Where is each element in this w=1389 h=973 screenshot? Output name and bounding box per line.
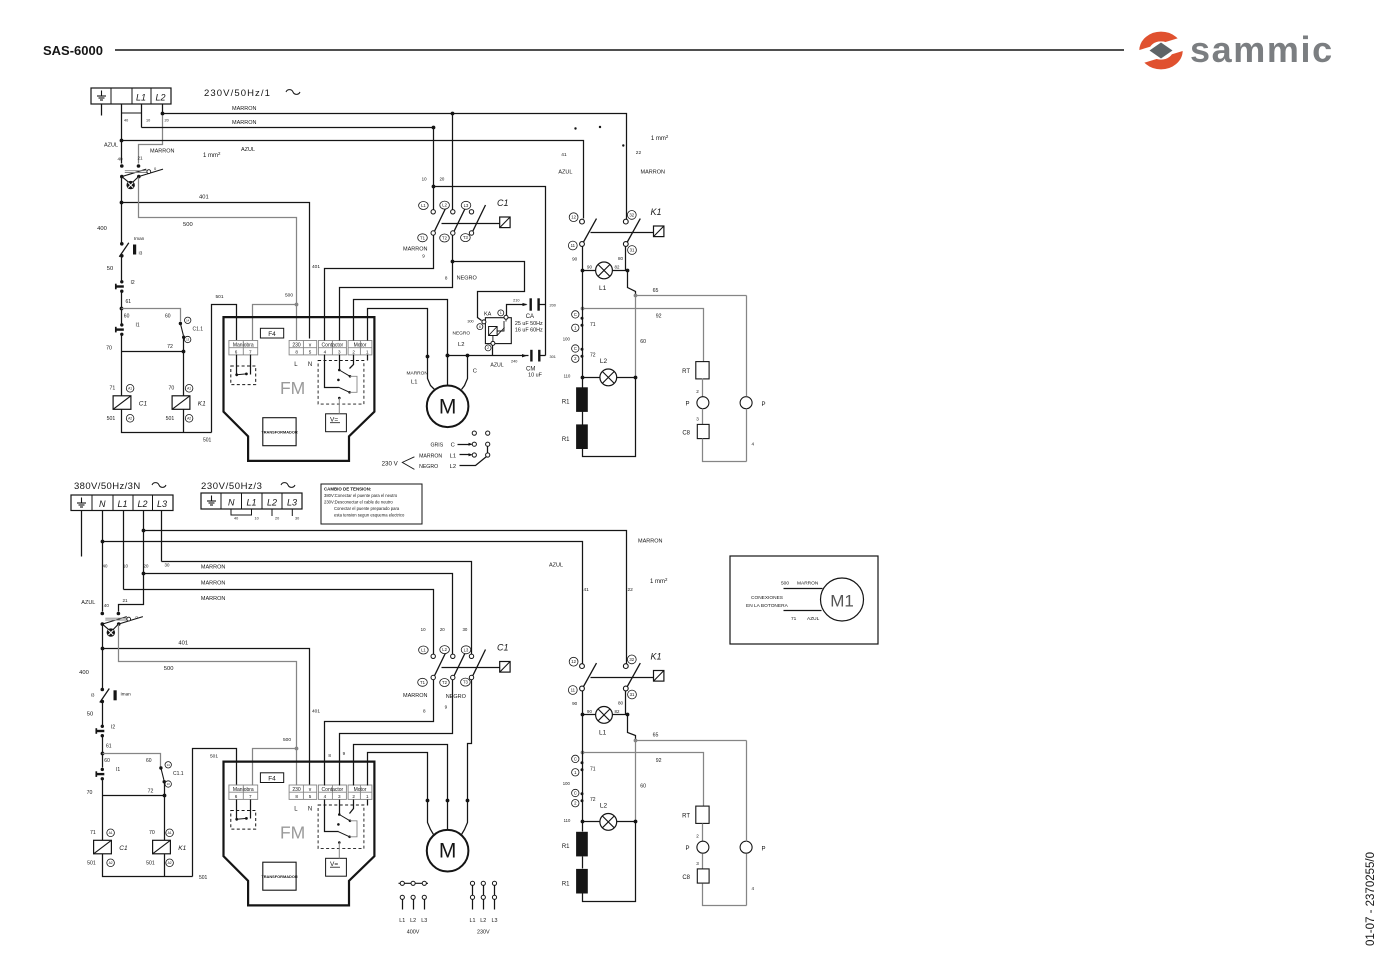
wire to lamp L2 left top	[583, 377, 600, 379]
internal contact a top	[338, 369, 351, 378]
svg-text:K1: K1	[198, 401, 206, 408]
wire maniobra 6 internal bottom	[236, 800, 238, 820]
svg-text:L3: L3	[157, 499, 167, 509]
svg-text:C8: C8	[682, 875, 690, 881]
pushbutton I2 bottom	[96, 725, 104, 738]
wire 20 marron top feeder	[163, 114, 627, 220]
svg-text:100: 100	[563, 336, 571, 341]
wire 8 T2 to FM contactor 3	[340, 236, 453, 341]
probe P left circle top	[697, 397, 709, 409]
wire 400 main down	[121, 177, 123, 244]
wire to lamp L2 left bottom	[583, 821, 600, 823]
svg-text:Motor: Motor	[354, 342, 367, 348]
wire L3 drop bottom	[161, 511, 163, 562]
svg-text:MARRON: MARRON	[403, 247, 427, 253]
svg-text:500: 500	[164, 666, 174, 672]
svg-text:92: 92	[656, 758, 662, 764]
svg-text:L2: L2	[480, 918, 486, 924]
internal contact a bottom	[338, 813, 351, 822]
internal contact b top	[337, 379, 351, 394]
K1 actuator bar top	[591, 232, 654, 234]
wire 200 to 301 vertical	[545, 305, 547, 356]
svg-text:501: 501	[203, 438, 212, 444]
svg-text:401: 401	[312, 709, 320, 715]
svg-text:400V: 400V	[407, 930, 420, 936]
circled C upper bottom	[572, 755, 579, 762]
svg-text:Maniobra: Maniobra	[233, 342, 254, 348]
svg-text:AZUL: AZUL	[81, 600, 95, 606]
wire 501 riser to maniobra 6 bottom	[193, 749, 237, 877]
legend circle row 1	[472, 431, 476, 435]
wire 22 feeder to K1-32 bottom	[144, 531, 627, 664]
circled 2 bottom	[572, 800, 579, 807]
svg-text:230: 230	[292, 787, 301, 793]
terminal strip Maniobra 6 7 bottom	[229, 785, 258, 799]
contactor dashed box bottom	[318, 805, 364, 849]
svg-text:L1: L1	[247, 498, 257, 508]
circled 2 top	[572, 355, 579, 362]
terminal legend 400V	[399, 882, 429, 884]
relay coil symbol K1 bottom	[654, 671, 664, 682]
svg-text:50: 50	[107, 266, 113, 272]
svg-text:M: M	[439, 840, 457, 863]
wire KA 2 to azul	[492, 346, 494, 356]
svg-text:8: 8	[445, 276, 448, 281]
internal right link bottom	[350, 821, 357, 837]
svg-text:A2: A2	[168, 861, 172, 865]
wire thermal contact chain bottom	[582, 715, 584, 822]
cambio de tension box	[321, 484, 422, 524]
wire 4 top	[746, 409, 748, 462]
wire motor-1 bottom	[368, 753, 434, 835]
wire 10 feeder bottom	[124, 590, 434, 655]
svg-text:L2: L2	[442, 203, 447, 208]
wire 500 branch to maniobra 7	[253, 305, 297, 341]
svg-text:L1: L1	[421, 203, 426, 208]
svg-text:L1: L1	[118, 499, 128, 509]
svg-text:3: 3	[338, 794, 341, 799]
svg-text:20: 20	[144, 564, 149, 569]
resistor R1 lower bottom	[576, 869, 588, 894]
svg-text:60: 60	[640, 784, 646, 790]
contactor pole L3-T3 bottom	[469, 650, 485, 680]
arrow marron	[460, 454, 470, 456]
svg-text:MARRON: MARRON	[201, 565, 225, 571]
svg-text:10: 10	[123, 564, 128, 569]
terminal strip 230v 8 5 bottom	[289, 785, 317, 799]
wire 10 marron feeder	[142, 127, 434, 129]
svg-text:C1.1: C1.1	[173, 771, 184, 777]
wire 500 branch to maniobra 7 bottom	[253, 749, 297, 786]
terminal strip Contactor 4 3 top	[318, 341, 346, 355]
wire L2 terminal drop	[162, 105, 164, 114]
svg-text:60: 60	[104, 758, 110, 764]
svg-text:401: 401	[312, 264, 320, 270]
wire 501 rail top	[122, 410, 212, 433]
relay contact K1 32-31 bottom	[623, 663, 640, 691]
svg-text:1: 1	[500, 311, 502, 315]
wire to lamp L2 right top	[617, 377, 636, 379]
wire 70 right	[183, 352, 185, 396]
svg-text:61: 61	[126, 299, 132, 305]
svg-text:300: 300	[467, 320, 473, 324]
svg-text:A2: A2	[109, 861, 113, 865]
wire 41 azul feeder to K1-12 bottom	[103, 542, 583, 664]
svg-text:A2: A2	[187, 416, 191, 420]
signal lamp L1 top	[596, 262, 613, 279]
magnet switch I3 bottom	[100, 688, 110, 704]
svg-text:301: 301	[550, 355, 556, 359]
signal lamp L1 bottom	[596, 707, 613, 724]
wire to lamp L1 left bottom	[583, 714, 596, 716]
wire lamp L1 to node 65 bottom	[628, 715, 636, 741]
terminal legend 230V	[470, 881, 474, 885]
circled 31 bottom	[628, 690, 637, 699]
internal V= lead top	[338, 397, 341, 414]
wire contactor-4 internal top	[325, 355, 339, 388]
svg-text:401: 401	[199, 195, 209, 201]
svg-text:71: 71	[791, 616, 797, 622]
circled C lower top	[572, 345, 579, 352]
svg-text:MARRON: MARRON	[403, 693, 427, 699]
V= box bottom	[326, 858, 347, 876]
svg-text:2: 2	[696, 389, 699, 394]
resistor R1 upper bottom	[576, 832, 588, 857]
svg-text:60: 60	[124, 314, 130, 320]
wire 40 azul drop	[121, 105, 123, 164]
circled A1 left bottom	[107, 829, 115, 837]
svg-text:2: 2	[352, 794, 355, 799]
legend 400V lower terminal	[411, 895, 415, 899]
svg-text:2: 2	[696, 833, 699, 838]
svg-text:MARRON: MARRON	[797, 581, 819, 587]
contactor pole L2-T2 top	[451, 205, 467, 235]
svg-text:I2: I2	[111, 725, 115, 731]
svg-text:71: 71	[90, 830, 96, 836]
svg-text:380V/50Hz/3N: 380V/50Hz/3N	[74, 481, 141, 492]
fuse F4 top	[260, 328, 283, 338]
terminal strip Motor 2 1 bottom	[348, 785, 372, 799]
svg-text:M: M	[439, 395, 457, 418]
svg-text:KA: KA	[484, 312, 492, 318]
main switch bottom	[101, 612, 143, 626]
wire 72 cross	[122, 338, 184, 352]
svg-text:501: 501	[87, 861, 96, 867]
svg-text:6: 6	[235, 794, 238, 799]
svg-text:8: 8	[295, 794, 298, 799]
wire contactor-3 internal bottom	[339, 800, 341, 815]
maniobra contact link bottom	[235, 817, 248, 821]
legend link col2	[487, 447, 489, 453]
circled A2 right bottom	[166, 859, 174, 867]
terminal strip Contactor 4 3 bottom	[318, 785, 346, 799]
switch pilot lamp top	[122, 177, 139, 190]
svg-text:71: 71	[110, 386, 116, 392]
wire 72 cross bottom	[103, 782, 165, 796]
svg-text:N: N	[308, 362, 312, 368]
svg-text:L2: L2	[442, 647, 447, 652]
internal right link top	[350, 376, 357, 392]
svg-text:L1: L1	[399, 918, 405, 924]
svg-text:A1: A1	[168, 831, 172, 835]
svg-text:230V/50Hz/3: 230V/50Hz/3	[201, 481, 263, 492]
svg-text:5: 5	[309, 794, 312, 799]
svg-text:Contactor: Contactor	[322, 787, 344, 793]
svg-text:501: 501	[210, 754, 218, 760]
terminal strip Maniobra 6 7 top	[229, 341, 258, 355]
svg-text:C8: C8	[682, 431, 690, 437]
contactor pole L2-T2 bottom	[451, 650, 467, 680]
svg-text:2: 2	[352, 350, 355, 355]
svg-text:8: 8	[328, 753, 331, 758]
svg-text:70: 70	[149, 830, 155, 836]
jumper bracket X1	[122, 104, 142, 113]
svg-text:TRANSFORMADOR: TRANSFORMADOR	[261, 430, 297, 435]
wire 65 top	[636, 295, 747, 297]
svg-text:60: 60	[640, 339, 646, 345]
wire T3 to motor lead 3	[462, 680, 472, 835]
arrow gris	[458, 444, 470, 446]
svg-text:AZUL: AZUL	[558, 169, 572, 175]
svg-text:72: 72	[590, 352, 596, 358]
svg-text:L2: L2	[450, 464, 456, 470]
wire to lamp L1 right bottom	[613, 714, 628, 716]
svg-text:13: 13	[186, 338, 190, 342]
contactor actuator bar bottom	[442, 667, 500, 669]
wire maniobra 7 internal bottom	[250, 800, 252, 819]
svg-text:Maniobra: Maniobra	[233, 787, 254, 793]
svg-text:T3: T3	[463, 680, 469, 685]
wire motor-1 internal stub top	[367, 355, 369, 361]
capacitor CA	[531, 298, 539, 310]
svg-text:10: 10	[255, 517, 259, 521]
svg-text:FM: FM	[280, 823, 305, 843]
wire 80 from contact 31 top	[625, 247, 627, 271]
chain junction dots bottom	[581, 761, 584, 764]
wire 70 right bottom	[164, 796, 166, 841]
chain junction dots top	[581, 317, 584, 320]
svg-text:A1: A1	[128, 386, 132, 390]
svg-text:L2: L2	[458, 342, 464, 348]
svg-text:AZUL: AZUL	[241, 147, 255, 153]
svg-text:C: C	[451, 443, 455, 449]
svg-text:72: 72	[148, 789, 154, 795]
FM module box top	[224, 317, 375, 461]
switch pilot lamp bottom	[102, 624, 118, 637]
wire maniobra 6 internal top	[236, 355, 238, 375]
svg-text:230V:Desconectar el cable de n: 230V:Desconectar el cable de neutro	[324, 500, 393, 505]
wire to resistor R1a top	[582, 378, 584, 388]
earth stem X1	[101, 105, 103, 116]
motor M bottom	[427, 830, 469, 872]
wire RT to P top	[702, 379, 704, 397]
svg-text:22: 22	[628, 587, 634, 593]
svg-text:500: 500	[183, 222, 193, 228]
wire 61	[121, 292, 123, 324]
svg-text:7: 7	[249, 350, 252, 355]
svg-text:501: 501	[107, 416, 116, 422]
svg-text:4: 4	[324, 350, 327, 355]
svg-text:R1: R1	[562, 400, 570, 406]
svg-text:I3: I3	[91, 693, 95, 698]
wire motor-1 marron L1	[368, 309, 435, 390]
svg-text:70: 70	[106, 346, 112, 352]
svg-text:TRANSFORMADOR: TRANSFORMADOR	[261, 874, 297, 879]
svg-text:9: 9	[422, 254, 425, 259]
svg-text:32: 32	[629, 657, 634, 662]
contactor coil C1 top	[113, 396, 131, 410]
main switch top	[120, 164, 163, 178]
svg-text:T1: T1	[420, 680, 426, 685]
relay contact K1 32-31 top	[623, 219, 640, 247]
wire to lamp L2 right bottom	[617, 821, 636, 823]
wire C8 bottom top	[703, 439, 747, 462]
KA pin 1	[504, 315, 508, 319]
wire motor-2 bottom	[354, 745, 448, 831]
wire motor-2 negro L2	[354, 300, 448, 386]
svg-text:6: 6	[479, 325, 481, 329]
wire between resistors bottom	[582, 857, 584, 869]
svg-text:501: 501	[146, 861, 155, 867]
wire to lamp L1 right top	[613, 270, 628, 272]
svg-text:AZUL: AZUL	[490, 363, 503, 369]
circled 31 top	[628, 246, 637, 255]
svg-text:I2: I2	[131, 280, 135, 286]
svg-text:01-07 - 2370255/0: 01-07 - 2370255/0	[1365, 852, 1377, 946]
svg-text:L1: L1	[470, 918, 476, 924]
wire 21 marron drop to switch	[139, 114, 163, 164]
svg-text:NEGRO: NEGRO	[453, 331, 471, 337]
svg-text:9: 9	[343, 751, 346, 756]
wire 65 down right top	[746, 296, 748, 397]
svg-text:41: 41	[561, 152, 567, 158]
svg-text:A2: A2	[128, 416, 132, 420]
svg-text:N: N	[228, 498, 235, 508]
svg-text:T2: T2	[442, 680, 448, 685]
svg-text:R1: R1	[562, 437, 570, 443]
relay coil K1 bottom	[153, 840, 171, 854]
svg-text:C1: C1	[139, 401, 148, 408]
terminal block X3 230V	[201, 493, 302, 509]
svg-text:230 V: 230 V	[382, 460, 399, 467]
wire L2 drop bottom	[119, 511, 144, 612]
pushbutton I2 top	[116, 280, 124, 293]
svg-text:L1: L1	[421, 648, 426, 653]
svg-text:380V:Conectar el puente para e: 380V:Conectar el puente para el neutro	[324, 493, 398, 498]
wire T1 to FM contactor 4 bottom	[325, 680, 434, 786]
svg-text:P: P	[685, 402, 689, 408]
svg-text:L1: L1	[450, 453, 456, 459]
svg-text:L1: L1	[599, 730, 607, 737]
svg-text:100: 100	[563, 781, 571, 786]
wire motor-1 internal stub bottom	[367, 800, 369, 806]
svg-text:C: C	[574, 791, 577, 796]
svg-text:C1: C1	[497, 643, 509, 653]
svg-text:EN LA BOTONERA: EN LA BOTONERA	[746, 603, 789, 609]
wire 40 azul drop bottom	[102, 511, 104, 612]
svg-text:MARRON: MARRON	[201, 581, 225, 587]
circled C lower bottom	[572, 789, 579, 796]
transformer box bottom	[261, 862, 297, 890]
svg-text:400: 400	[97, 226, 107, 232]
svg-text:K1: K1	[651, 652, 662, 662]
terminal block X1	[91, 88, 171, 104]
svg-text:70: 70	[169, 386, 175, 392]
wire 401 to FM v5	[122, 203, 310, 339]
wire 501 riser to maniobra 6	[212, 305, 237, 433]
KA pin 2	[491, 341, 495, 345]
wire L1 drop	[141, 105, 143, 128]
svg-text:13: 13	[167, 782, 171, 786]
svg-text:92: 92	[656, 314, 662, 320]
svg-text:90: 90	[572, 701, 578, 706]
svg-text:L1: L1	[411, 380, 417, 386]
magnet switch I3 top	[119, 242, 129, 258]
svg-text:GRIS: GRIS	[431, 443, 444, 449]
capacitor CM	[531, 350, 539, 362]
internal contact b bottom	[337, 823, 351, 838]
wire resistor bottom rail bottom	[583, 822, 636, 902]
wire T2 to FM contactor 3 bottom	[340, 680, 453, 786]
svg-text:NEGRO: NEGRO	[457, 276, 478, 282]
svg-text:14: 14	[167, 763, 171, 767]
svg-text:1: 1	[366, 350, 369, 355]
svg-text:L2: L2	[600, 803, 608, 810]
svg-text:3: 3	[696, 861, 699, 866]
section bottom circuit three phase	[71, 481, 878, 936]
svg-text:71: 71	[590, 766, 596, 772]
svg-text:400: 400	[79, 670, 89, 676]
logo sammic icon	[1130, 35, 1191, 66]
svg-text:MARRON: MARRON	[407, 371, 429, 377]
K1 actuator bar bottom	[591, 677, 654, 679]
probe P left circle bottom	[697, 841, 709, 853]
svg-text:90: 90	[587, 709, 592, 714]
wire contactor-3 internal top	[339, 355, 341, 371]
svg-text:A1: A1	[187, 386, 191, 390]
transformer box top	[261, 418, 297, 446]
svg-text:L2: L2	[600, 358, 608, 365]
wire 4 bottom	[746, 854, 748, 906]
fuse F4 bottom	[260, 773, 283, 783]
contactor coil symbol C1 bottom	[500, 662, 510, 673]
wire azul common C	[448, 355, 529, 357]
svg-text:P: P	[761, 847, 765, 853]
svg-text:8: 8	[423, 709, 426, 714]
svg-text:11: 11	[571, 688, 576, 693]
svg-text:MARRON: MARRON	[150, 149, 174, 155]
svg-text:30: 30	[295, 517, 299, 521]
KA pin 6	[482, 320, 486, 324]
svg-text:20: 20	[165, 119, 169, 123]
start relay KA box	[485, 318, 511, 344]
circled 12 bottom	[569, 657, 578, 666]
svg-text:90: 90	[587, 264, 592, 269]
circled A1 left top	[126, 385, 134, 393]
wire resistor bottom rail top	[583, 378, 636, 457]
pushbutton I1 bottom	[96, 768, 104, 781]
legend circle row 3	[472, 453, 476, 457]
wire 400 main down bottom	[102, 625, 104, 690]
svg-text:500: 500	[285, 293, 293, 299]
svg-text:90: 90	[572, 257, 578, 262]
internal V= lead bottom	[338, 841, 341, 858]
svg-text:12: 12	[571, 215, 576, 220]
wire between resistors top	[582, 412, 584, 425]
svg-text:A1: A1	[109, 831, 113, 835]
svg-text:C1: C1	[119, 845, 128, 852]
wire 50 bottom	[102, 702, 104, 727]
